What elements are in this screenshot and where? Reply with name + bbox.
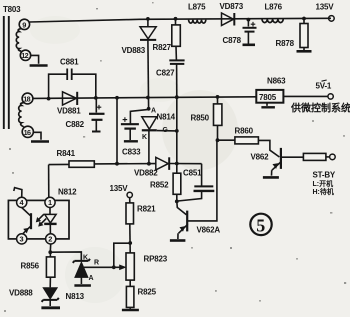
svg-text:9: 9 [22,21,26,30]
svg-text:L876: L876 [265,3,283,12]
svg-text:VD883: VD883 [122,46,146,55]
svg-text:供微控制系统: 供微控制系统 [290,102,350,115]
svg-text:V862A: V862A [197,226,221,235]
svg-text:16: 16 [24,128,31,137]
svg-text:R821: R821 [137,205,156,214]
svg-text:T803: T803 [3,5,21,14]
svg-text:RP823: RP823 [144,255,168,264]
svg-text:VD882: VD882 [134,169,158,178]
svg-text:R856: R856 [21,262,40,271]
svg-text:C827: C827 [156,69,175,78]
svg-text:R852: R852 [150,181,169,190]
svg-text:C833: C833 [122,148,141,157]
svg-text:N863: N863 [267,77,286,86]
svg-text:ST-BY: ST-BY [313,171,336,180]
svg-text:5V-1: 5V-1 [316,82,332,91]
svg-text:3: 3 [20,235,24,244]
svg-text:R841: R841 [57,149,76,158]
svg-text:1: 1 [48,198,52,207]
svg-text:135V: 135V [110,184,129,193]
svg-text:R850: R850 [191,114,210,123]
svg-text:A: A [89,275,94,282]
svg-text:C851: C851 [183,169,202,178]
svg-text:N813: N813 [66,292,85,301]
svg-text:R: R [94,260,99,267]
svg-text:C878: C878 [223,36,242,45]
svg-text:C882: C882 [66,120,85,129]
svg-text:VD888: VD888 [9,289,33,298]
svg-text:L:开机: L:开机 [313,179,334,188]
svg-text:12: 12 [21,51,28,60]
svg-text:VD873: VD873 [220,2,244,11]
svg-text:R827: R827 [153,43,172,52]
svg-text:VD881: VD881 [57,107,81,116]
svg-text:H:待机: H:待机 [313,187,334,196]
svg-text:7805: 7805 [259,93,277,102]
svg-text:N812: N812 [58,188,77,197]
svg-text:K: K [142,134,147,141]
svg-text:G: G [163,127,169,134]
svg-text:N814: N814 [157,113,176,122]
svg-text:2: 2 [48,235,52,244]
svg-text:K: K [83,255,88,262]
svg-text:C881: C881 [60,58,79,67]
svg-text:5: 5 [256,215,265,235]
svg-text:L875: L875 [188,3,206,12]
svg-text:R825: R825 [138,288,157,297]
svg-text:R878: R878 [276,39,295,48]
svg-text:A: A [151,108,156,115]
svg-text:18: 18 [23,95,30,104]
svg-text:135V: 135V [316,3,335,12]
svg-text:V862: V862 [251,153,270,162]
svg-text:R860: R860 [235,127,254,136]
